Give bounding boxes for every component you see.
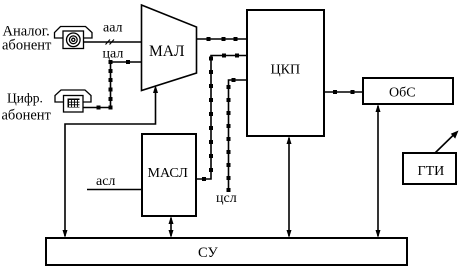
- svg-text:Цифр.: Цифр.: [7, 91, 43, 106]
- bus TsKP-MASL: [197, 54, 248, 182]
- analog phone icon: [55, 27, 93, 49]
- svg-text:ЦКП: ЦКП: [271, 63, 301, 78]
- bus MAL-TsKP: [197, 37, 248, 41]
- analog subscriber label: [2, 24, 52, 54]
- arrow ObS-SU: [376, 104, 381, 238]
- bus tsl: [227, 78, 248, 192]
- bus TsKP-ObS: [324, 90, 363, 94]
- block ObS: [363, 78, 453, 104]
- arrow SU-MAL: [63, 85, 159, 238]
- svg-text:цсл: цсл: [216, 191, 237, 206]
- svg-text:МАСЛ: МАСЛ: [148, 166, 189, 181]
- block GTI: [403, 153, 456, 184]
- svg-text:ОбС: ОбС: [389, 86, 416, 101]
- svg-text:СУ: СУ: [198, 245, 218, 261]
- digital subscriber label: [2, 91, 52, 124]
- block MASL: [142, 134, 196, 216]
- svg-text:цал: цал: [103, 47, 124, 62]
- block TsKP: [247, 10, 324, 136]
- svg-text:МАЛ: МАЛ: [149, 43, 185, 60]
- digital phone icon: [55, 90, 91, 112]
- arrow GTI clock out: [435, 131, 459, 154]
- arrow MASL-SU: [169, 216, 174, 238]
- block MAL trapezoid: [142, 5, 197, 91]
- svg-text:ГТИ: ГТИ: [418, 164, 445, 179]
- wire tsal dotted bus: [84, 60, 142, 110]
- wire aal: [84, 40, 142, 45]
- svg-text:абонент: абонент: [2, 108, 52, 124]
- wire asl: [87, 189, 142, 191]
- arrow TsKP-SU: [287, 136, 292, 238]
- block SU: [46, 238, 407, 265]
- svg-text:асл: асл: [96, 174, 115, 189]
- svg-text:аал: аал: [103, 21, 123, 36]
- svg-text:абонент: абонент: [2, 38, 52, 54]
